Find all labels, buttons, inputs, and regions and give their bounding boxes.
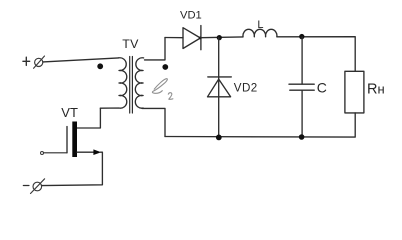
minus sign [23,185,29,187]
terminal + (circle with slash) [34,56,45,68]
transistor VT emitter lead with arrow [77,149,101,155]
node: junction dot C top [299,34,304,39]
node: junction dot VD1/VD2/L [217,35,222,40]
svg-text:C: C [317,79,327,95]
inductor L [243,29,277,36]
transformer TV secondary winding [135,58,143,108]
node: junction dot VD2 bottom [216,135,222,141]
wire: + terminal to primary winding [43,58,119,62]
svg-text:VD1: VD1 [180,10,202,22]
svg-text:VD2: VD2 [234,82,258,95]
wire: - terminal to VT emitter [42,152,103,185]
diode VD2 [208,77,232,97]
svg-text:Rн: Rн [367,82,385,98]
transistor VT gate terminal circle [41,152,44,155]
transistor VT body bar [72,122,77,158]
terminal - (circle with slash) [31,179,45,194]
transformer TV primary winding [100,58,126,108]
plus sign [23,57,30,65]
wire: VD2 branch [218,38,220,138]
wire: L to capacitor node and to RH top [277,37,355,72]
svg-text:TV: TV [122,37,139,51]
svg-text:VT: VT [61,105,78,120]
label l2 (pencil note) [152,79,173,100]
wire: bottom rail (secondary bottom to VD2, C, RH) [165,113,355,137]
capacitor C [289,37,314,137]
wire: VD1 cathode to inductor L [201,36,243,39]
wire: secondary winding bottom lead [142,108,165,136]
wire: secondary top to VD1 anode [165,37,183,39]
transistor VT gate lead [44,152,68,154]
svg-text:L: L [257,19,263,31]
diode VD1 [183,26,202,50]
transistor VT gate electrode [66,127,68,153]
resistor RH [345,71,364,113]
node: junction dot C bottom [299,134,305,140]
node: primary winding polarity dot [97,63,103,69]
wire: secondary winding top lead [145,38,166,60]
transformer TV core [130,57,133,114]
node: secondary winding polarity dot [162,64,168,70]
wire: primary bottom lead to VT collector [77,108,100,128]
